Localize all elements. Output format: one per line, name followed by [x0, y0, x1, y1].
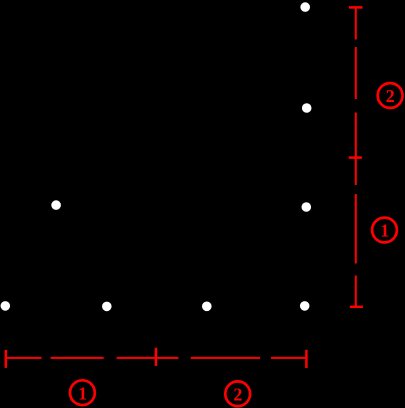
- lattice point bottom row second: [102, 302, 112, 312]
- vertical dimension line bottom cap: [350, 306, 363, 309]
- lattice point bottom-right corner: [300, 301, 310, 311]
- label circle 1 bottom: [70, 380, 95, 405]
- vertical dimension line mid tick: [349, 156, 362, 159]
- label circle 2 bottom: [225, 381, 250, 406]
- label circle 2 upper right: [378, 83, 403, 108]
- label circle 1 right: [372, 218, 397, 243]
- horizontal dimension line right cap: [305, 350, 308, 368]
- vertical dimension line dashes: [355, 7, 357, 306]
- svg-text:2: 2: [233, 384, 242, 404]
- lattice point top-right: [300, 2, 310, 12]
- lattice point right column third: [302, 202, 312, 212]
- svg-text:2: 2: [386, 86, 395, 106]
- lattice point centered site: [51, 200, 61, 210]
- svg-text:1: 1: [78, 383, 87, 403]
- horizontal dimension line left cap: [5, 350, 8, 368]
- horizontal dimension line mid tick: [155, 348, 158, 366]
- lattice point bottom row third: [202, 302, 212, 312]
- lattice point bottom row first: [1, 301, 11, 311]
- svg-text:1: 1: [380, 221, 389, 241]
- lattice point right column second: [302, 103, 312, 113]
- vertical dimension line top cap: [349, 6, 363, 9]
- horizontal dimension line dashes: [6, 357, 307, 359]
